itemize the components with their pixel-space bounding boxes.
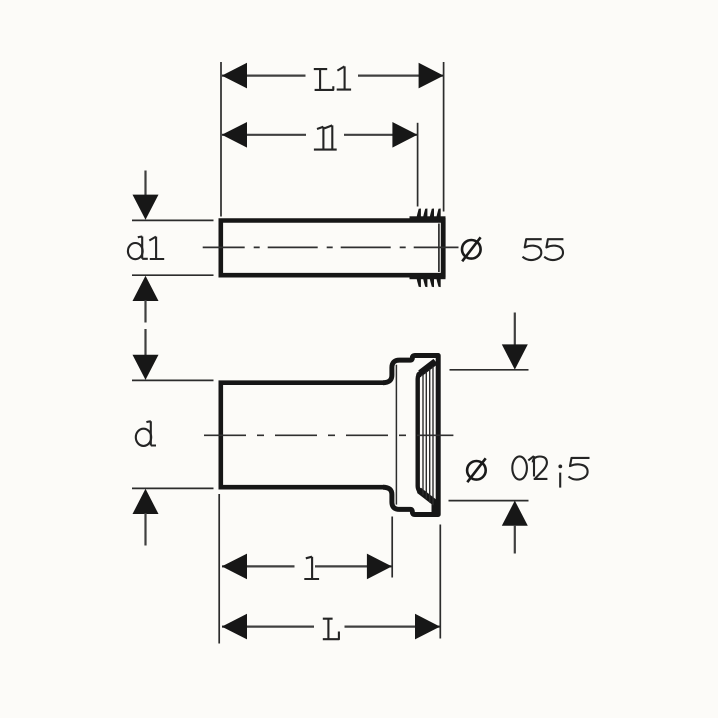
dimension d arrow bottom xyxy=(133,489,159,514)
top pipe end inner face line xyxy=(438,224,440,273)
dimension l line xyxy=(222,565,392,567)
top serration teeth upper xyxy=(410,209,446,223)
socket inner top slant xyxy=(420,362,435,374)
dimension L1 extension line right xyxy=(443,62,445,212)
bottom pipe body xyxy=(221,383,385,488)
dimension L arrow right xyxy=(415,614,440,640)
gasket ridge lines xyxy=(423,367,433,506)
dimension d1 extension lines xyxy=(132,220,214,275)
socket inner bottom slant xyxy=(419,490,438,505)
dimension L arrow left xyxy=(222,614,247,640)
dimension l1 arrow right xyxy=(392,122,417,148)
dimension d1 arrow top xyxy=(144,171,146,196)
dimension l1 line xyxy=(222,134,417,136)
label diameter 55 xyxy=(462,237,481,261)
dimension L1 extension line left xyxy=(220,62,222,217)
dimension d1 arrow bottom xyxy=(133,276,159,301)
socket bore bottom knuckle xyxy=(417,488,422,493)
top pipe right end edge xyxy=(441,218,446,278)
top pipe body xyxy=(221,218,443,277)
dimension l arrow right xyxy=(367,554,392,580)
dimension l arrow left xyxy=(222,554,247,580)
dimension diameter right arrow bottom xyxy=(502,501,528,526)
label d1 xyxy=(128,237,164,260)
dimension diameter right arrow top xyxy=(514,313,516,346)
dimension l extension line right xyxy=(391,517,393,578)
dimension d extension lines xyxy=(132,380,214,488)
label L xyxy=(323,619,339,640)
dimension L1 line xyxy=(222,74,443,76)
dimension L extension line right xyxy=(439,525,441,639)
bottom centerline xyxy=(204,434,453,436)
socket bore top knuckle xyxy=(416,372,422,378)
label diameter 102.5 xyxy=(467,458,486,482)
dimension L1 arrow right xyxy=(419,63,444,89)
socket inner bottom wedge xyxy=(432,503,439,516)
label l xyxy=(304,557,319,579)
dimension d arrow top xyxy=(144,329,146,356)
label l1 xyxy=(314,125,337,149)
dimension diameter right extension lines xyxy=(449,370,529,501)
socket flange inner line xyxy=(395,365,397,505)
dimension l extension line left shared xyxy=(218,494,220,644)
dimension L line xyxy=(222,625,440,627)
top centerline xyxy=(203,246,459,248)
top serration teeth lower xyxy=(410,273,446,287)
dimension l1 arrow left xyxy=(222,122,247,148)
dimension L1 arrow left xyxy=(222,63,247,89)
label d xyxy=(136,421,156,446)
dimension l1 extension line right xyxy=(417,123,419,207)
socket outer profile xyxy=(383,356,438,515)
label L1 xyxy=(314,66,351,90)
socket inner mouth xyxy=(418,361,438,505)
